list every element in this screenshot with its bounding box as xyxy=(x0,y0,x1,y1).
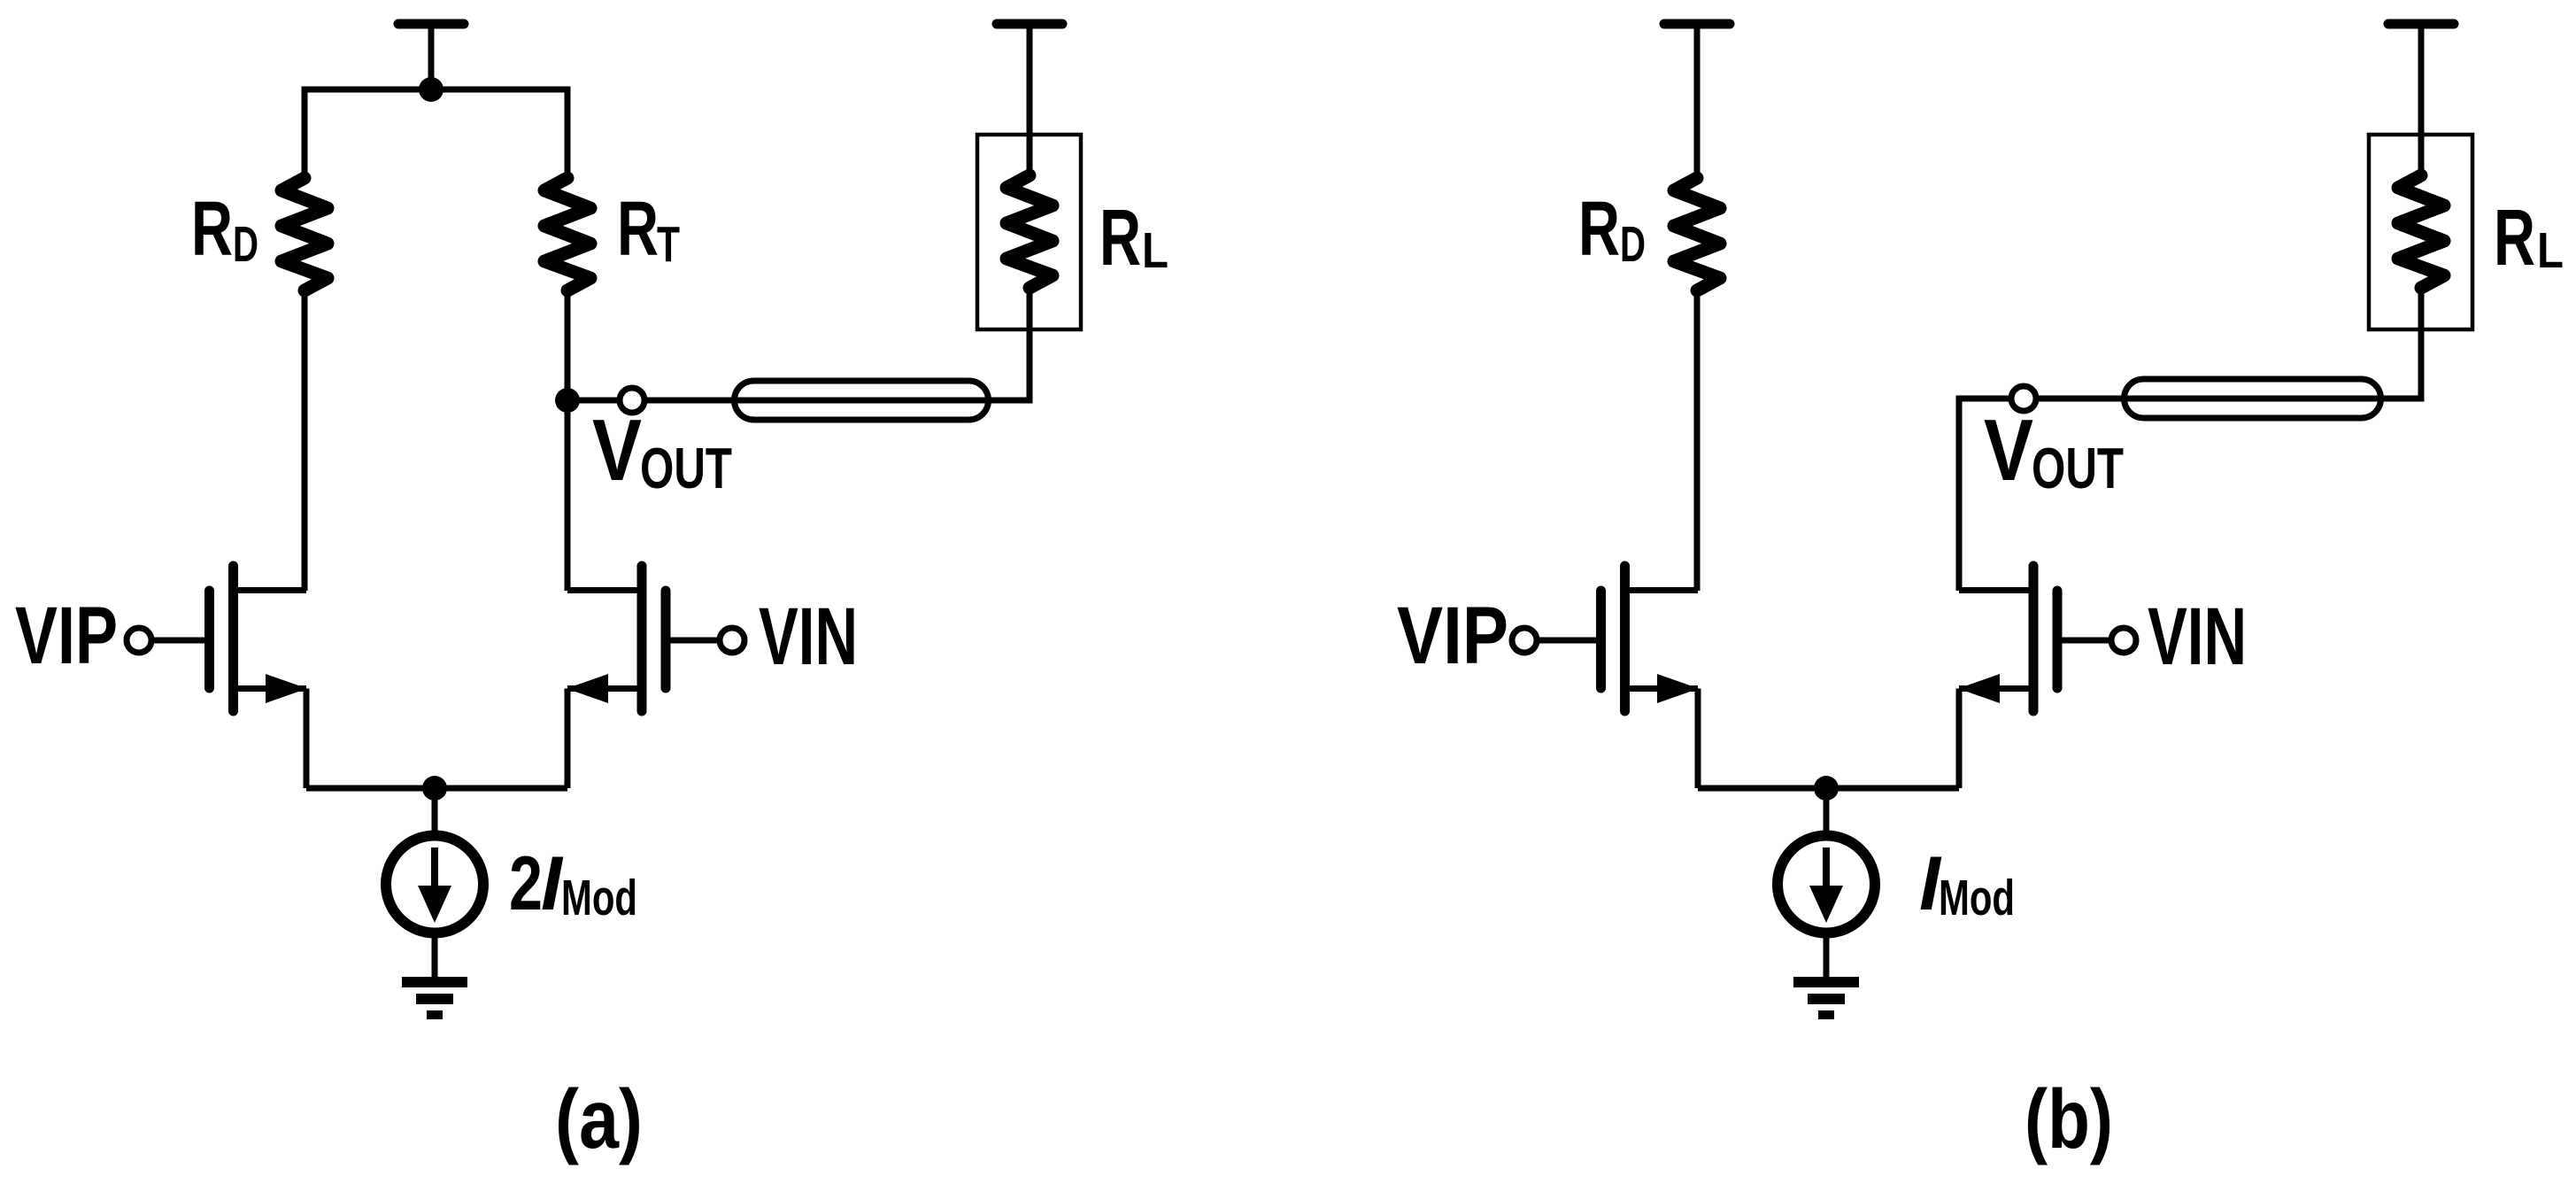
transistor M4 source stub wire xyxy=(1959,685,2033,692)
current source arrow xyxy=(1809,848,1843,923)
svg-text:R: R xyxy=(191,186,233,272)
resistor RD (a) xyxy=(282,178,328,290)
resistor RT (a) xyxy=(544,178,590,290)
svg-text:V: V xyxy=(592,401,642,499)
svg-text:D: D xyxy=(1620,216,1646,273)
svg-text:VIN: VIN xyxy=(2148,592,2247,682)
wire RT to M2 drain through VOUT node xyxy=(565,290,571,591)
current source circle xyxy=(386,836,483,933)
transistor M4 drain stub wire xyxy=(1959,587,2033,593)
svg-text:(a): (a) xyxy=(555,1072,643,1166)
gate wire to VIN xyxy=(2061,638,2119,644)
transistor M4 channel bar xyxy=(2029,566,2039,711)
wire tail node to current source xyxy=(432,788,438,833)
svg-text:Mod: Mod xyxy=(1939,870,2015,926)
svg-text:L: L xyxy=(2537,222,2564,279)
svg-text:(b): (b) xyxy=(2025,1072,2113,1166)
wire M3 source down xyxy=(1695,689,1701,789)
svg-text:R: R xyxy=(617,186,659,272)
label 2IMod xyxy=(509,841,637,926)
resistor RL (b) xyxy=(2398,175,2444,288)
svg-text:OUT: OUT xyxy=(640,436,732,500)
transistor M2 channel bar xyxy=(637,566,647,711)
transistor M3 gate bar xyxy=(1596,591,1606,688)
label IMod xyxy=(1919,841,2015,926)
svg-text:OUT: OUT xyxy=(2032,436,2124,500)
svg-text:VIP: VIP xyxy=(1397,591,1508,681)
ground symbol xyxy=(402,982,467,1015)
junction dot on top rail xyxy=(419,77,443,102)
terminal circle VOUT (b) xyxy=(2011,386,2036,411)
transistor M3 channel bar xyxy=(1620,566,1630,711)
wire VOUT to transmission line and RL (a) xyxy=(567,288,1030,400)
wire current source to ground xyxy=(1824,936,1830,978)
label VOUT (b) xyxy=(1984,401,2124,500)
transistor M2 gate bar xyxy=(661,591,671,688)
terminal circle VIN xyxy=(2111,628,2136,653)
power supply VDD symbol xyxy=(1664,24,1730,178)
ground symbol xyxy=(1793,982,1859,1015)
transmission line stadium (b) xyxy=(2125,379,2381,418)
RL box (b) xyxy=(2369,135,2472,329)
wire RD to M3 drain (b) xyxy=(1694,290,1701,591)
resistor RD (b) xyxy=(1674,178,1720,290)
gate wire to VIN xyxy=(669,638,728,644)
transistor M3 source arrow xyxy=(1657,674,1699,703)
wire current source to ground xyxy=(432,936,438,978)
transistor M1 source arrow xyxy=(266,674,307,703)
gate wire to VIP xyxy=(142,638,206,644)
transistor M3 drain stub wire xyxy=(1625,587,1699,593)
svg-text:V: V xyxy=(1984,401,2033,499)
label RD (a) xyxy=(191,186,258,273)
svg-text:T: T xyxy=(657,216,680,273)
wire sources rail (b) xyxy=(1698,786,1959,792)
svg-text:Mod: Mod xyxy=(561,870,637,926)
wire sources rail (a) xyxy=(306,786,567,792)
node VOUT junction dot (a) xyxy=(555,388,580,413)
wire tail node to current source xyxy=(1824,788,1830,833)
transistor M1 source stub wire xyxy=(234,685,307,692)
svg-text:VIN: VIN xyxy=(759,592,858,682)
label RT (a) xyxy=(617,186,680,273)
transistor M4 source arrow xyxy=(1958,674,2000,703)
svg-text:R: R xyxy=(1578,186,1620,272)
current source circle xyxy=(1778,836,1875,933)
transistor M1 drain stub wire xyxy=(234,587,307,593)
svg-text:VIP: VIP xyxy=(15,591,118,681)
svg-text:L: L xyxy=(1142,222,1168,279)
svg-text:2: 2 xyxy=(509,841,543,926)
terminal circle VIP xyxy=(1512,628,1537,653)
transistor M1 gate bar xyxy=(204,591,214,688)
wire M4 drain up to VOUT and to RL (b) xyxy=(1959,288,2421,591)
RL box (a) xyxy=(977,135,1081,329)
gate wire to VIP xyxy=(1533,638,1598,644)
transistor M4 gate bar xyxy=(2053,591,2063,688)
transmission line stadium (a) xyxy=(735,381,989,420)
label RL (b) xyxy=(2494,194,2564,283)
terminal circle VIP xyxy=(127,628,151,653)
transistor M2 source arrow xyxy=(567,674,608,703)
current source arrow xyxy=(418,848,451,923)
resistor RL (a) xyxy=(1006,175,1053,288)
wire M4 source down xyxy=(1956,689,1963,789)
terminal circle VIN xyxy=(720,628,744,653)
junction dot at tail node xyxy=(1814,776,1839,801)
svg-text:R: R xyxy=(2494,194,2535,283)
label RD (b) xyxy=(1578,186,1646,273)
svg-text:D: D xyxy=(233,216,258,273)
label VOUT (a) xyxy=(592,401,732,500)
power supply VDD symbol xyxy=(398,24,464,89)
power supply VDD symbol xyxy=(997,24,1062,175)
wire M1 source down xyxy=(304,689,310,789)
transistor M2 source stub wire xyxy=(567,685,642,692)
power supply VDD symbol xyxy=(2388,24,2454,175)
transistor M3 source stub wire xyxy=(1625,685,1699,692)
junction dot at tail node xyxy=(422,776,447,801)
label RL (a) xyxy=(1099,194,1168,283)
wire top rail (a) xyxy=(305,89,567,178)
wire M2 source down xyxy=(565,689,571,789)
transistor M2 drain stub wire xyxy=(567,587,642,593)
svg-text:R: R xyxy=(1099,194,1141,283)
transistor M1 channel bar xyxy=(228,566,238,711)
terminal circle VOUT (a) xyxy=(620,388,644,413)
wire RD to M1 drain xyxy=(302,290,308,591)
